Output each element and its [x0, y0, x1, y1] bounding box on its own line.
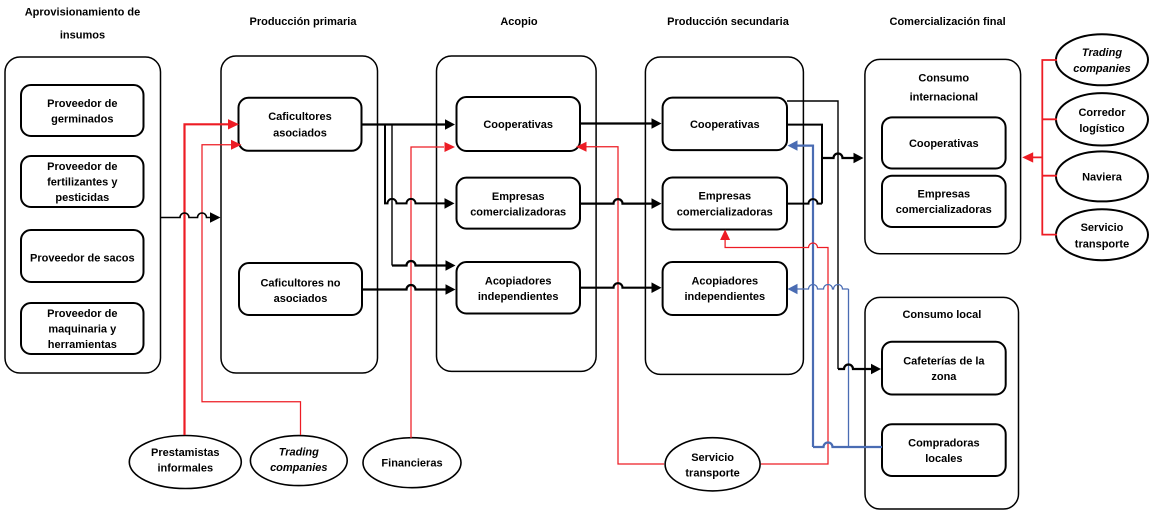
svg-text:comercializadoras: comercializadoras	[896, 204, 992, 216]
svg-text:fertilizantes y: fertilizantes y	[47, 177, 118, 189]
svg-text:Acopiadores: Acopiadores	[691, 276, 758, 288]
svg-text:pesticidas: pesticidas	[55, 192, 109, 204]
svg-text:independientes: independientes	[684, 291, 765, 303]
svg-text:Acopiadores: Acopiadores	[485, 276, 552, 288]
svg-text:Proveedor de: Proveedor de	[47, 308, 117, 320]
svg-text:Proveedor de: Proveedor de	[47, 161, 117, 173]
svg-text:companies: companies	[1073, 63, 1130, 75]
svg-text:maquinaria y: maquinaria y	[48, 324, 117, 336]
svg-text:Proveedor de sacos: Proveedor de sacos	[30, 253, 135, 265]
svg-text:Cooperativas: Cooperativas	[909, 138, 979, 150]
svg-text:informales: informales	[157, 463, 213, 475]
svg-text:Prestamistas: Prestamistas	[151, 447, 220, 459]
svg-text:Servicio: Servicio	[1081, 222, 1124, 234]
svg-text:internacional: internacional	[910, 92, 978, 104]
svg-text:Consumo: Consumo	[918, 73, 969, 85]
svg-text:comercializadoras: comercializadoras	[677, 207, 773, 219]
svg-text:asociados: asociados	[274, 293, 328, 305]
svg-text:Caficultores no: Caficultores no	[260, 278, 340, 290]
svg-text:Trading: Trading	[1082, 47, 1122, 59]
svg-text:herramientas: herramientas	[48, 339, 117, 351]
svg-text:Servicio: Servicio	[691, 452, 734, 464]
svg-text:Naviera: Naviera	[1082, 172, 1123, 184]
svg-text:transporte: transporte	[1075, 238, 1129, 250]
svg-text:Caficultores: Caficultores	[268, 111, 332, 123]
svg-text:Financieras: Financieras	[381, 458, 442, 470]
svg-text:Cooperativas: Cooperativas	[690, 119, 760, 131]
svg-text:independientes: independientes	[478, 291, 559, 303]
svg-text:Cooperativas: Cooperativas	[483, 119, 553, 131]
svg-text:Empresas: Empresas	[699, 191, 752, 203]
svg-text:Trading: Trading	[279, 447, 319, 459]
svg-text:logístico: logístico	[1079, 123, 1125, 135]
svg-text:germinados: germinados	[51, 114, 113, 126]
svg-text:Compradoras: Compradoras	[908, 438, 980, 450]
svg-text:Corredor: Corredor	[1078, 107, 1126, 119]
svg-text:Aprovisionamiento de: Aprovisionamiento de	[25, 7, 141, 19]
svg-text:Producción secundaria: Producción secundaria	[667, 16, 790, 28]
svg-text:zona: zona	[931, 371, 957, 383]
svg-text:Comercialización final: Comercialización final	[890, 16, 1006, 28]
svg-text:comercializadoras: comercializadoras	[470, 207, 566, 219]
svg-text:asociados: asociados	[273, 128, 327, 140]
svg-text:Producción primaria: Producción primaria	[250, 16, 358, 28]
svg-text:Proveedor de: Proveedor de	[47, 98, 117, 110]
svg-text:locales: locales	[925, 453, 962, 465]
svg-text:Empresas: Empresas	[492, 191, 545, 203]
svg-text:insumos: insumos	[60, 30, 105, 42]
svg-text:Consumo local: Consumo local	[902, 309, 981, 321]
svg-text:Cafeterías de la: Cafeterías de la	[903, 356, 985, 368]
svg-text:Empresas: Empresas	[918, 189, 971, 201]
svg-text:companies: companies	[270, 462, 327, 474]
svg-text:transporte: transporte	[685, 468, 739, 480]
svg-text:Acopio: Acopio	[500, 16, 538, 28]
